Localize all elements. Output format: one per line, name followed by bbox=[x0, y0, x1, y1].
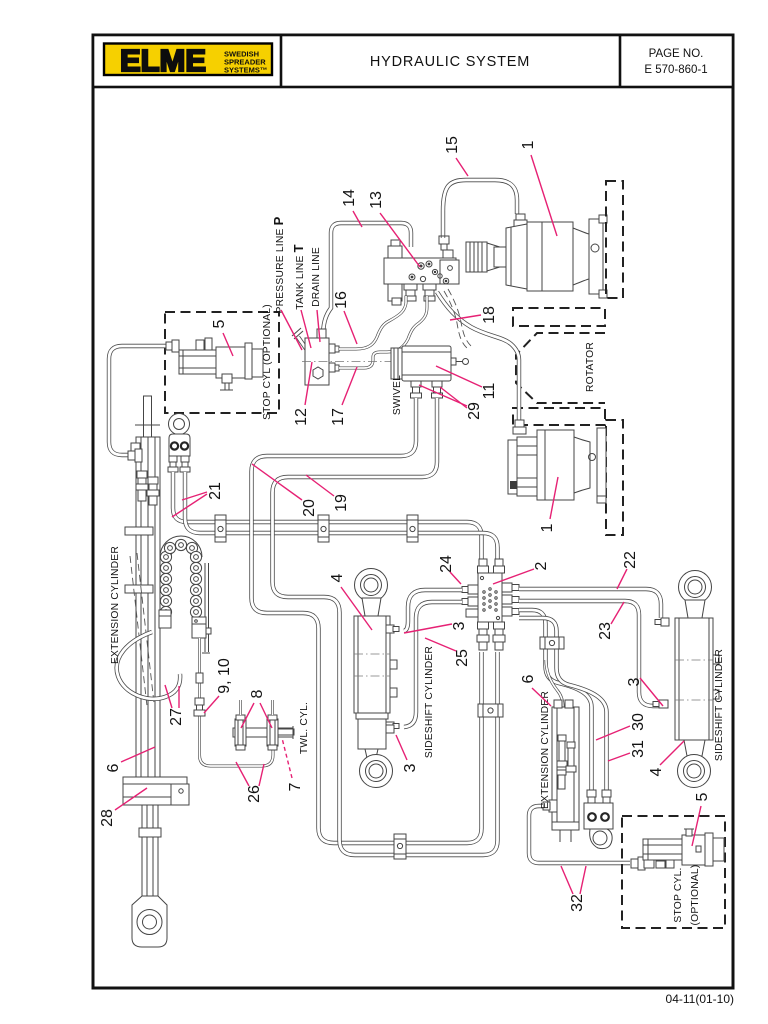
hose 18 (valve to lower rotator) bbox=[437, 292, 519, 422]
extension cylinder rod bbox=[139, 805, 161, 896]
ROTATOR dashed trapezoid bbox=[516, 333, 605, 403]
label TANK LINE T bbox=[291, 244, 311, 348]
bracket stub hoses 8 bbox=[241, 700, 273, 715]
svg-text:1: 1 bbox=[520, 140, 537, 149]
callout 9, 10 bbox=[204, 658, 233, 713]
callout 7 bbox=[282, 738, 304, 791]
svg-text:PAGE NO.: PAGE NO. bbox=[649, 48, 704, 60]
dashed plate bottom bbox=[606, 420, 623, 535]
svg-text:STOP CYL.: STOP CYL. bbox=[673, 867, 684, 922]
callout 4 center bbox=[329, 573, 372, 630]
svg-text:HYDRAULIC SYSTEM: HYDRAULIC SYSTEM bbox=[370, 54, 530, 70]
svg-text:4: 4 bbox=[329, 573, 346, 582]
hose 19 (swivel to manifold long loop inner) bbox=[273, 398, 498, 855]
extension cylinder eye block bbox=[168, 414, 190, 473]
label DRAIN LINE bbox=[311, 247, 322, 342]
svg-text:SIDESHIFT CYLINDER: SIDESHIFT CYLINDER bbox=[424, 646, 435, 758]
svg-text:ROTATOR: ROTATOR bbox=[585, 342, 596, 392]
svg-text:6: 6 bbox=[520, 674, 537, 683]
svg-text:11: 11 bbox=[481, 383, 498, 400]
callout 26 bbox=[236, 762, 264, 803]
clamp on bottom run bbox=[394, 834, 406, 859]
clamp on bundle 3 bbox=[407, 515, 418, 542]
callout 25 bbox=[425, 638, 471, 667]
clamp below manifold bbox=[478, 704, 503, 717]
port block 12 bbox=[292, 328, 339, 385]
bottom extension cylinder 6 bbox=[543, 700, 579, 842]
dashed band upper bbox=[513, 308, 605, 326]
svg-text:1: 1 bbox=[539, 523, 556, 532]
bottom port block with eye bbox=[584, 790, 613, 849]
axis dash-dot line bbox=[302, 361, 468, 363]
hose to bottom ext cylinder top bbox=[546, 660, 563, 707]
svg-text:3: 3 bbox=[451, 621, 468, 630]
svg-text:21: 21 bbox=[207, 482, 224, 500]
extension cylinder top rod bbox=[135, 396, 160, 437]
svg-text:22: 22 bbox=[622, 551, 639, 569]
svg-text:23: 23 bbox=[597, 622, 614, 640]
svg-text:5: 5 bbox=[211, 319, 228, 328]
valve bottom fitting stacks bbox=[404, 284, 436, 301]
svg-text:7: 7 bbox=[287, 782, 304, 791]
header box bbox=[93, 35, 733, 87]
callout 16 bbox=[333, 291, 357, 344]
svg-text:04-11(01-10): 04-11(01-10) bbox=[666, 992, 734, 1006]
svg-text:SWIVEL: SWIVEL bbox=[392, 375, 403, 415]
main drawing frame bbox=[93, 35, 733, 988]
svg-text:EXTENSION CYLINDER: EXTENSION CYLINDER bbox=[110, 546, 121, 664]
hose 30 (manifold to bottom cyl area) bbox=[519, 610, 592, 793]
callout 6 bottom center bbox=[520, 674, 551, 706]
svg-text:18: 18 bbox=[481, 306, 498, 324]
inline fittings 9,10 bbox=[194, 673, 205, 716]
svg-text:4: 4 bbox=[648, 767, 665, 776]
svg-text:EXTENSION CYLINDER: EXTENSION CYLINDER bbox=[540, 691, 551, 809]
chain end block left bbox=[159, 610, 171, 628]
hose 22 (manifold to right cyl top) bbox=[519, 589, 661, 618]
rotator 1 bottom bbox=[508, 420, 606, 503]
callout 14 bbox=[341, 189, 362, 227]
callout 24 bbox=[438, 555, 461, 584]
svg-text:24: 24 bbox=[438, 555, 455, 573]
svg-text:16: 16 bbox=[333, 291, 350, 309]
callout 8 bbox=[241, 689, 272, 728]
hose slack loop bbox=[117, 632, 180, 699]
hose 21 upper (eye block to manifold) bbox=[173, 472, 482, 560]
stop cyl optional dashed box bottom-right bbox=[622, 816, 725, 928]
svg-text:15: 15 bbox=[444, 136, 461, 154]
clamp on bundle 2 bbox=[318, 515, 329, 542]
hose 25b (manifold to center cyl bottom port) bbox=[404, 602, 462, 727]
svg-text:12: 12 bbox=[293, 408, 310, 426]
hose T (port block to valve) bbox=[339, 296, 427, 368]
svg-text:19: 19 bbox=[333, 494, 350, 512]
hose P (port block to valve) bbox=[339, 296, 406, 349]
hose 20 (swivel to manifold long loop outer) bbox=[252, 398, 482, 843]
extension cylinder clevis eye bbox=[132, 896, 167, 947]
energy chain carrier bbox=[160, 536, 210, 653]
svg-text:30: 30 bbox=[630, 713, 647, 731]
svg-text:31: 31 bbox=[630, 740, 647, 758]
callout 6 left bbox=[105, 747, 155, 772]
svg-text:29: 29 bbox=[466, 402, 483, 420]
svg-text:3: 3 bbox=[402, 763, 419, 772]
stop cylinder 5 top-left bbox=[166, 338, 263, 390]
callout 5 top-left bbox=[211, 319, 233, 356]
hose 15 (arc to rotator) bbox=[443, 180, 517, 238]
svg-text:8: 8 bbox=[249, 689, 266, 698]
hose 14 (pressure hose to valve) bbox=[323, 223, 411, 338]
callout 22 bbox=[617, 551, 639, 589]
callout 30 bbox=[596, 713, 647, 740]
callout 28 bbox=[99, 788, 147, 827]
callout 21 bbox=[172, 482, 224, 517]
callout 4 right bbox=[648, 741, 684, 776]
stop cyl optional dashed box top-left bbox=[165, 312, 279, 413]
svg-text:ELME: ELME bbox=[120, 43, 206, 78]
hose 25a (manifold to center cyl top port) bbox=[404, 590, 462, 631]
svg-text:5: 5 bbox=[694, 792, 711, 801]
quick coupler bbox=[466, 242, 506, 272]
valve 9,10 block bbox=[192, 617, 211, 638]
hose stop cyl to extension cylinder bbox=[109, 346, 167, 455]
manifold 2 bbox=[462, 559, 519, 650]
dashed band lower bbox=[513, 408, 605, 425]
svg-text:SYSTEMS™: SYSTEMS™ bbox=[224, 66, 267, 75]
hose 32 U loop bbox=[529, 806, 630, 863]
clamp on hose 30/31 bbox=[540, 637, 564, 649]
callout 3 right cyl bbox=[626, 677, 663, 706]
hose 23 (manifold to right cyl bottom) bbox=[519, 601, 659, 706]
rotator 1 top bbox=[506, 214, 607, 298]
svg-text:32: 32 bbox=[569, 894, 586, 912]
svg-text:26: 26 bbox=[246, 785, 263, 803]
callout 32 bbox=[561, 866, 586, 912]
svg-text:14: 14 bbox=[341, 189, 358, 207]
header divider right bbox=[619, 35, 622, 87]
swivel 11 bbox=[391, 346, 469, 381]
callout 3 manifold-left bbox=[404, 621, 468, 633]
valve block 13 bbox=[384, 236, 459, 305]
callout 27 bbox=[165, 685, 185, 726]
callout 11 bbox=[436, 366, 498, 399]
stop cylinder 5 bottom-right bbox=[631, 829, 724, 870]
svg-text:27: 27 bbox=[168, 708, 185, 726]
callout 1 top bbox=[520, 140, 557, 236]
callout 5 bottom-right bbox=[692, 792, 711, 846]
svg-text:9, 10: 9, 10 bbox=[216, 658, 233, 694]
svg-text:DRAIN LINE: DRAIN LINE bbox=[311, 247, 322, 307]
callout 18 bbox=[450, 306, 498, 324]
svg-text:28: 28 bbox=[99, 809, 116, 827]
svg-text:STOP CYL (OPTIONAL): STOP CYL (OPTIONAL) bbox=[262, 304, 273, 420]
svg-text:25: 25 bbox=[454, 649, 471, 667]
clamp on bundle 1 bbox=[215, 515, 226, 542]
svg-text:20: 20 bbox=[301, 499, 318, 517]
svg-text:E 570-860-1: E 570-860-1 bbox=[644, 64, 707, 76]
hose 31 (to bottom block) bbox=[519, 618, 607, 793]
callout 20 bbox=[252, 464, 318, 517]
callout 12 bbox=[293, 362, 312, 426]
extension cylinder body bbox=[125, 437, 160, 777]
callout 13 bbox=[368, 191, 420, 267]
header divider left bbox=[280, 35, 283, 87]
svg-text:SIDESHIFT CYLINDER: SIDESHIFT CYLINDER bbox=[714, 649, 725, 761]
svg-text:(OPTIONAL): (OPTIONAL) bbox=[690, 865, 701, 926]
callout 1 bottom bbox=[539, 477, 558, 532]
label PRESSURE LINE P bbox=[271, 216, 302, 350]
callout 3 center-bottom bbox=[396, 735, 419, 772]
callout 2 bbox=[493, 561, 550, 584]
swivel bottom fittings 29 bbox=[411, 381, 443, 398]
svg-text:17: 17 bbox=[330, 408, 347, 426]
callout 23 bbox=[597, 602, 624, 640]
dashed plate top bbox=[606, 181, 623, 298]
sideshift cylinder right bbox=[653, 571, 719, 788]
extension cylinder head flange bbox=[123, 777, 189, 805]
svg-text:13: 13 bbox=[368, 191, 385, 209]
callout 15 bbox=[444, 136, 468, 176]
svg-text:6: 6 bbox=[105, 763, 122, 772]
callout 29 bbox=[419, 385, 483, 420]
drain hose dashed bbox=[444, 289, 471, 349]
callout 31 bbox=[608, 740, 647, 761]
hose 21 lower (eye block to manifold) bbox=[185, 472, 498, 560]
svg-text:TWL. CYL.: TWL. CYL. bbox=[299, 702, 310, 754]
sideshift cylinder center bbox=[354, 569, 399, 788]
hose from valve 9,10 to twl bracket bbox=[200, 638, 274, 766]
twl bracket bar 7 bbox=[233, 715, 294, 750]
callout 19 bbox=[306, 475, 350, 512]
svg-text:2: 2 bbox=[533, 561, 550, 570]
ELME logo bbox=[104, 43, 272, 78]
callout 17 bbox=[330, 367, 357, 426]
